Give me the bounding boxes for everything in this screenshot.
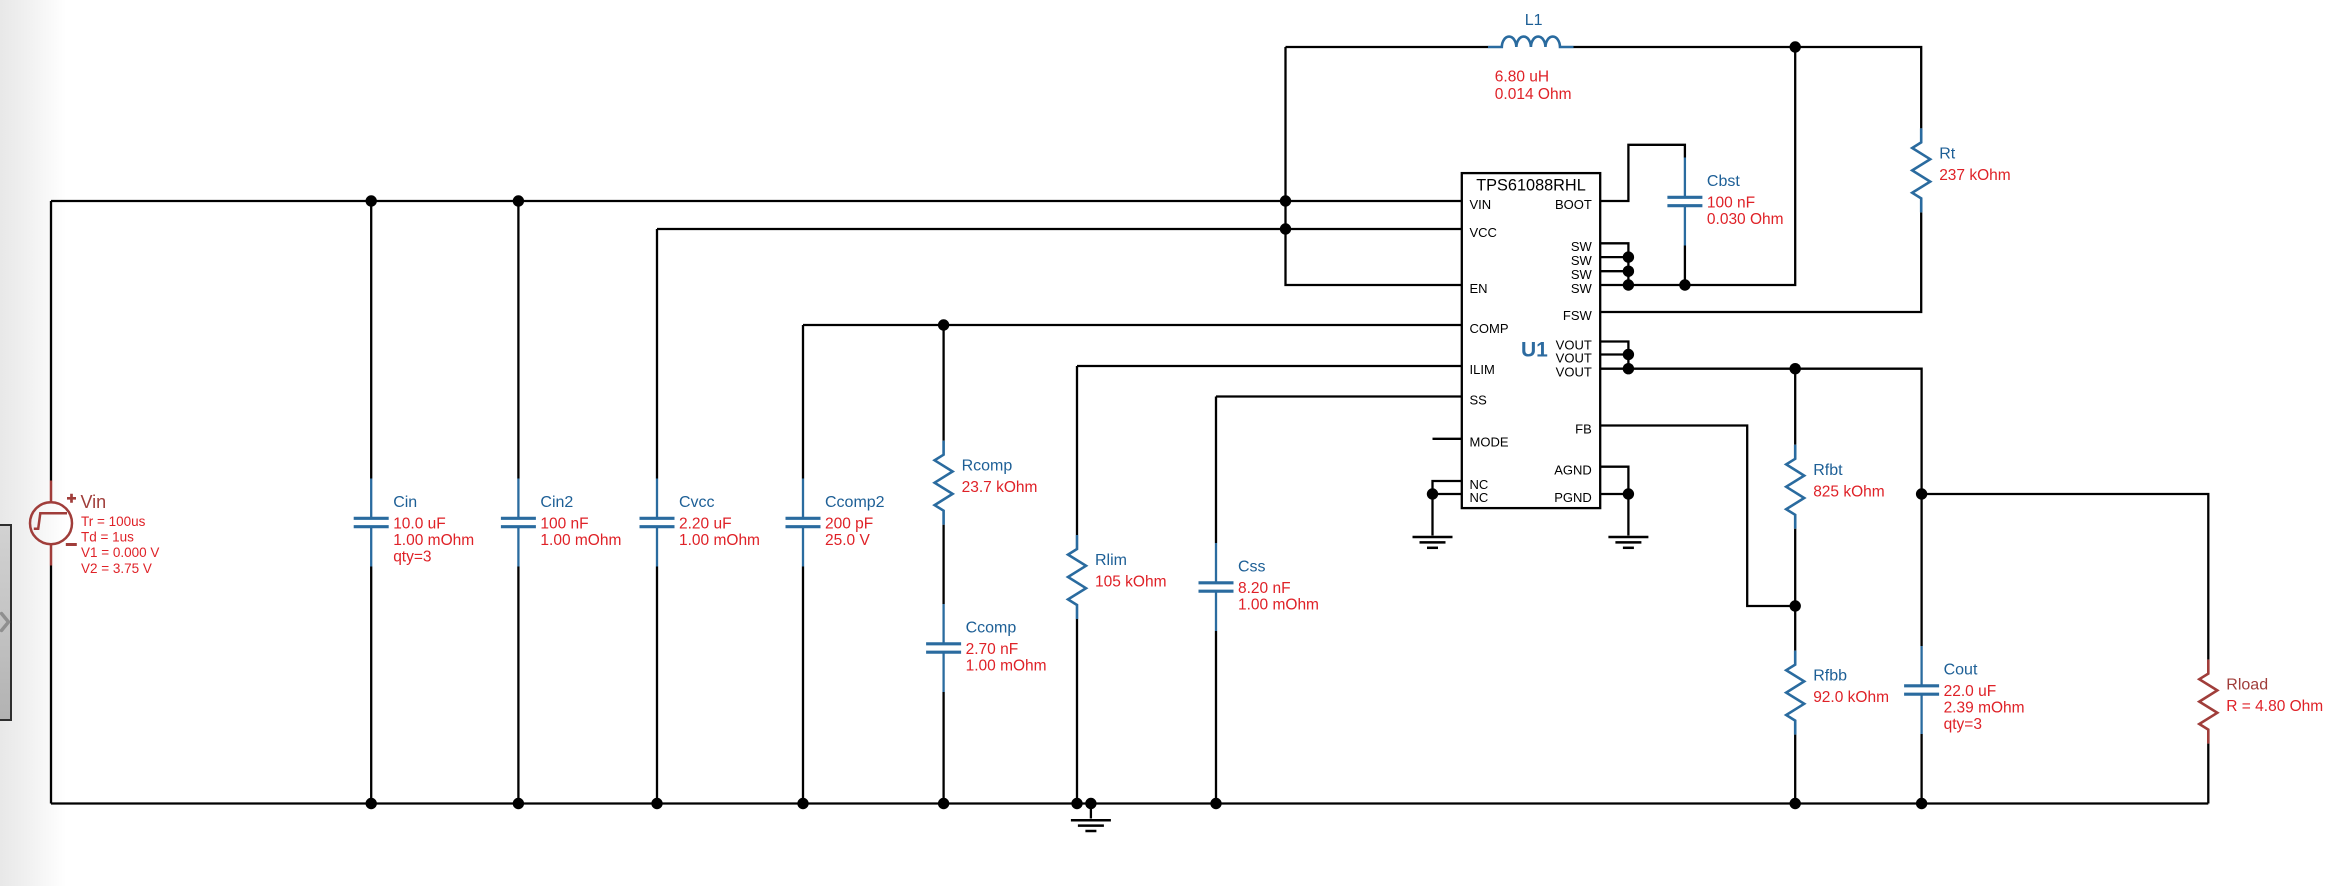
svg-text:92.0 kOhm: 92.0 kOhm	[1813, 689, 1889, 706]
svg-text:1.00 mOhm: 1.00 mOhm	[393, 532, 474, 549]
svg-text:VOUT: VOUT	[1556, 365, 1592, 380]
svg-text:SW: SW	[1571, 253, 1593, 268]
svg-text:Cout: Cout	[1944, 662, 1978, 679]
svg-text:FSW: FSW	[1563, 308, 1593, 323]
svg-text:Cvcc: Cvcc	[679, 494, 715, 511]
svg-text:R = 4.80 Ohm: R = 4.80 Ohm	[2226, 698, 2323, 715]
svg-text:AGND: AGND	[1554, 463, 1592, 478]
svg-text:VCC: VCC	[1470, 225, 1497, 240]
svg-text:Td = 1us: Td = 1us	[81, 530, 134, 545]
svg-text:Cin2: Cin2	[540, 494, 573, 511]
svg-text:23.7 kOhm: 23.7 kOhm	[962, 479, 1038, 496]
svg-text:qty=3: qty=3	[1944, 716, 1982, 733]
svg-text:V1 = 0.000 V: V1 = 0.000 V	[81, 545, 159, 560]
svg-text:Css: Css	[1238, 559, 1266, 576]
svg-text:Rfbt: Rfbt	[1813, 462, 1843, 479]
svg-text:Cbst: Cbst	[1707, 173, 1740, 190]
svg-text:SW: SW	[1571, 267, 1593, 282]
svg-text:EN: EN	[1470, 281, 1488, 296]
svg-text:1.00 mOhm: 1.00 mOhm	[966, 658, 1047, 675]
svg-text:SW: SW	[1571, 281, 1593, 296]
svg-text:VIN: VIN	[1470, 197, 1492, 212]
svg-text:0.014 Ohm: 0.014 Ohm	[1495, 86, 1572, 103]
svg-text:MODE: MODE	[1470, 435, 1509, 450]
svg-text:NC: NC	[1470, 490, 1489, 505]
svg-text:Rload: Rload	[2226, 677, 2268, 694]
svg-text:Ccomp: Ccomp	[966, 620, 1017, 637]
svg-text:22.0 uF: 22.0 uF	[1944, 683, 1997, 700]
svg-text:V2 = 3.75 V: V2 = 3.75 V	[81, 561, 152, 576]
svg-text:Vin: Vin	[81, 492, 107, 512]
svg-text:Cin: Cin	[393, 494, 417, 511]
svg-text:SW: SW	[1571, 239, 1593, 254]
svg-text:8.20 nF: 8.20 nF	[1238, 580, 1291, 597]
svg-text:qty=3: qty=3	[393, 548, 431, 565]
svg-text:825 kOhm: 825 kOhm	[1813, 483, 1885, 500]
svg-text:10.0 uF: 10.0 uF	[393, 516, 446, 533]
svg-text:FB: FB	[1575, 421, 1592, 436]
svg-text:0.030 Ohm: 0.030 Ohm	[1707, 211, 1784, 228]
svg-text:237 kOhm: 237 kOhm	[1939, 167, 2011, 184]
svg-text:1.00 mOhm: 1.00 mOhm	[679, 532, 760, 549]
svg-text:Ccomp2: Ccomp2	[825, 494, 885, 511]
svg-text:SS: SS	[1470, 392, 1488, 407]
svg-text:Rt: Rt	[1939, 145, 1956, 162]
svg-text:TPS61088RHL: TPS61088RHL	[1476, 177, 1586, 195]
svg-text:Rlim: Rlim	[1095, 552, 1127, 569]
svg-text:100 nF: 100 nF	[540, 516, 588, 533]
svg-text:Rfbb: Rfbb	[1813, 668, 1847, 685]
svg-text:2.20 uF: 2.20 uF	[679, 516, 732, 533]
svg-text:25.0 V: 25.0 V	[825, 532, 870, 549]
svg-text:BOOT: BOOT	[1555, 197, 1592, 212]
svg-text:2.70 nF: 2.70 nF	[966, 641, 1019, 658]
svg-text:Rcomp: Rcomp	[962, 458, 1013, 475]
svg-text:U1: U1	[1521, 338, 1548, 361]
svg-text:105 kOhm: 105 kOhm	[1095, 574, 1167, 591]
svg-text:VOUT: VOUT	[1556, 350, 1592, 365]
svg-text:ILIM: ILIM	[1470, 362, 1495, 377]
svg-text:6.80 uH: 6.80 uH	[1495, 68, 1549, 85]
svg-text:100 nF: 100 nF	[1707, 195, 1755, 212]
svg-text:2.39 mOhm: 2.39 mOhm	[1944, 700, 2025, 717]
svg-text:Tr = 100us: Tr = 100us	[81, 514, 146, 529]
svg-text:1.00 mOhm: 1.00 mOhm	[540, 532, 621, 549]
svg-text:L1: L1	[1525, 12, 1543, 29]
svg-text:COMP: COMP	[1470, 321, 1509, 336]
svg-text:200 pF: 200 pF	[825, 516, 873, 533]
svg-text:1.00 mOhm: 1.00 mOhm	[1238, 597, 1319, 614]
svg-text:PGND: PGND	[1554, 490, 1592, 505]
